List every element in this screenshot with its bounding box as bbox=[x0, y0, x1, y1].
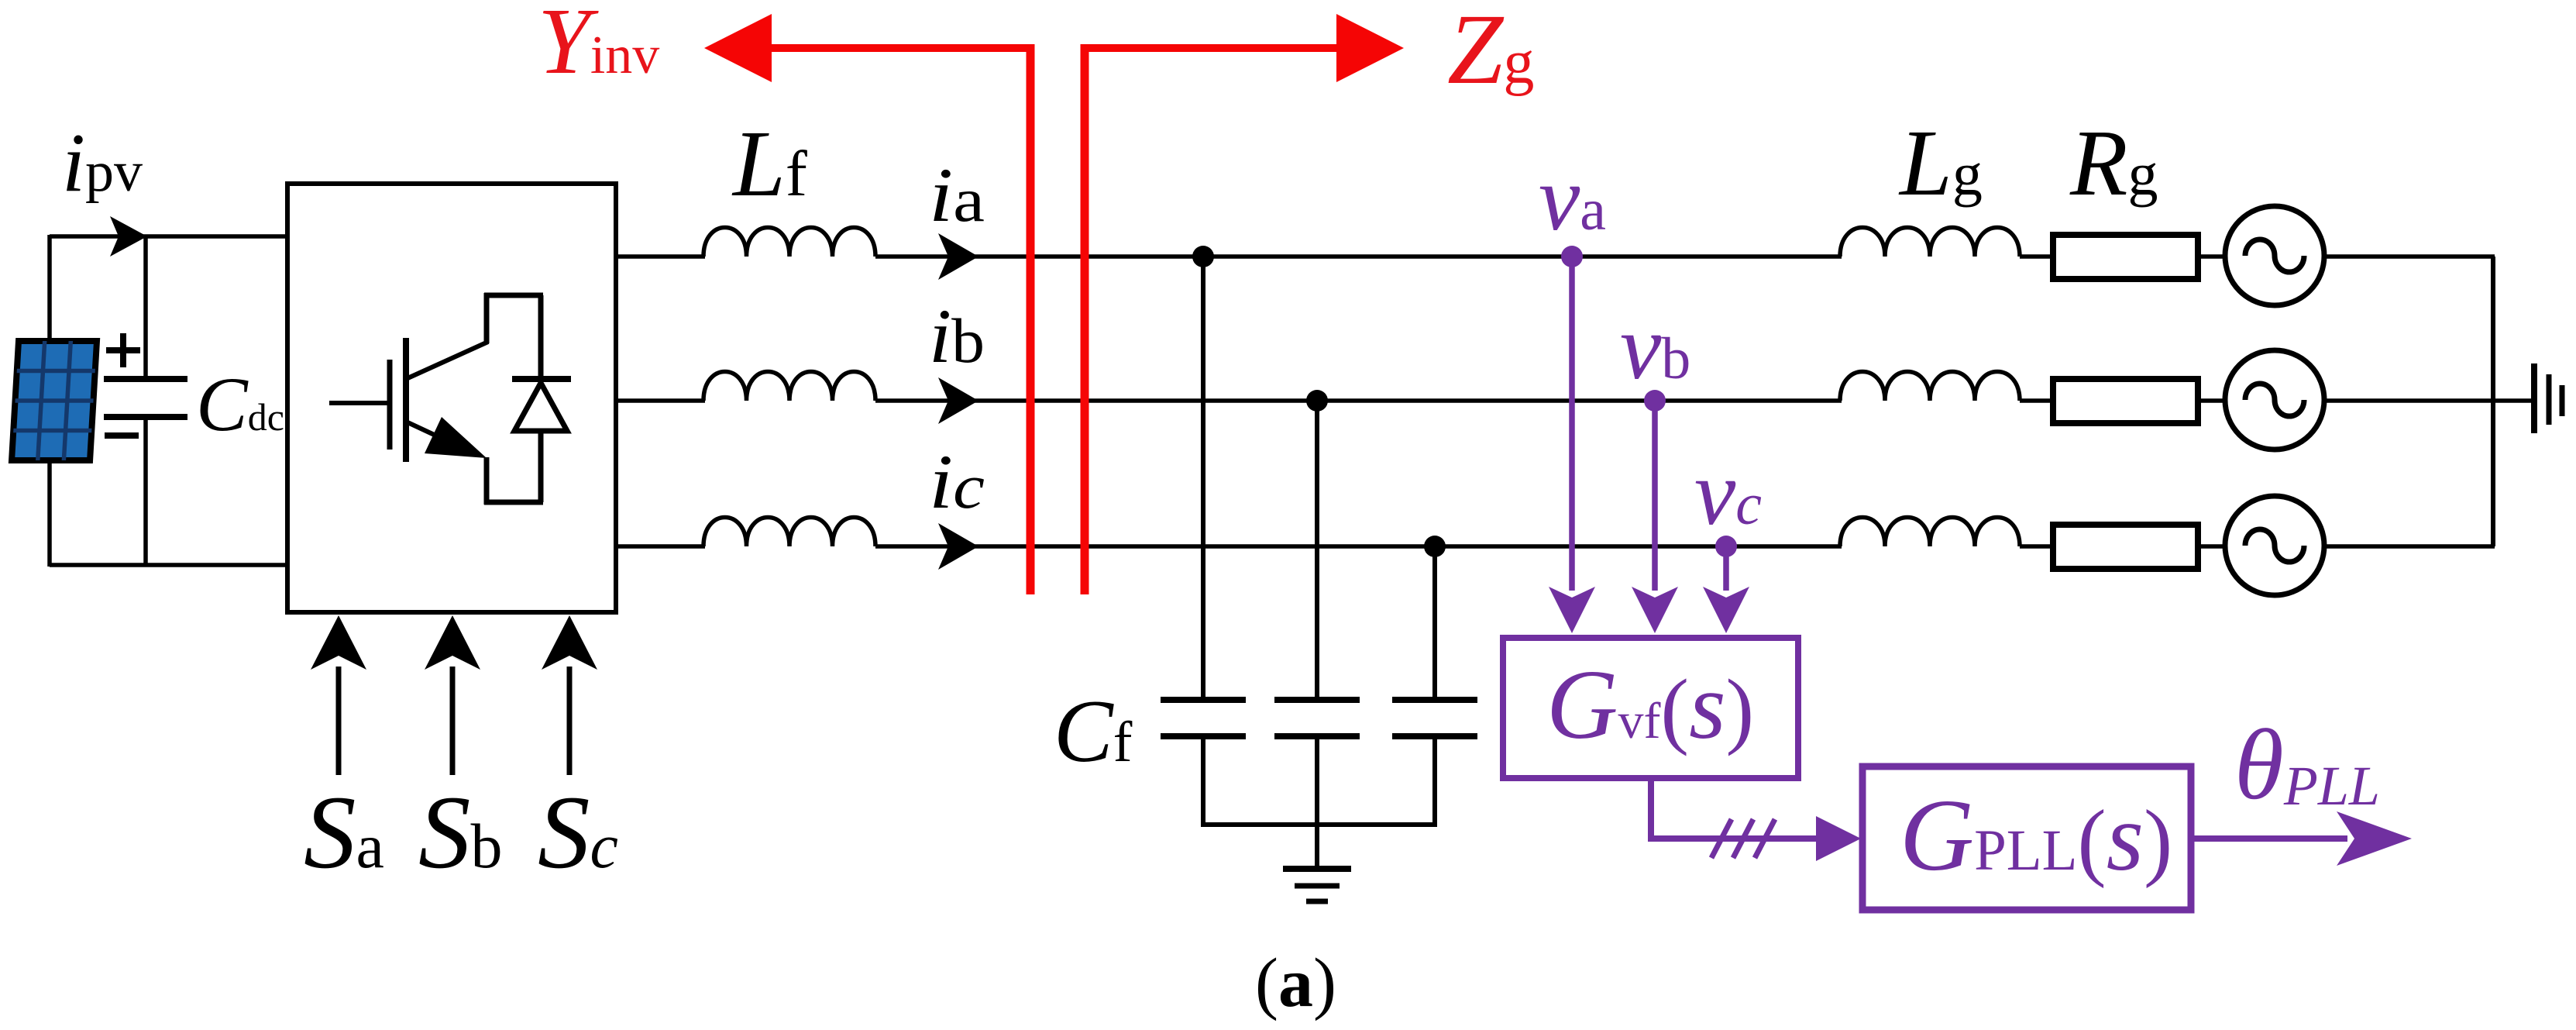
current arrow i_c bbox=[938, 523, 978, 570]
label Sa bbox=[304, 775, 384, 890]
label Gpll(s) bbox=[1900, 777, 2172, 892]
wire switch Sa bbox=[311, 615, 366, 775]
svg-text:(a): (a) bbox=[1255, 945, 1336, 1021]
ac source Vb bbox=[2225, 350, 2324, 450]
wire cap bus bbox=[1201, 822, 1437, 827]
transistor Q1 IGBT bbox=[329, 338, 488, 462]
label va bbox=[1539, 146, 1606, 250]
wire phase C source to bus bbox=[2324, 544, 2495, 549]
wire phase B source to bus bbox=[2324, 398, 2534, 403]
node vc bbox=[1715, 536, 1737, 557]
ac source Va bbox=[2225, 206, 2324, 305]
inductor Lg phase A bbox=[1840, 228, 2020, 257]
label Lf bbox=[731, 112, 807, 216]
wire vc sense bbox=[1703, 546, 1749, 633]
wire phase B coil to resistor bbox=[2020, 398, 2055, 403]
wire phase A to grid bbox=[875, 254, 1842, 259]
label Yinv bbox=[538, 0, 659, 94]
wire phase C coil to resistor bbox=[2020, 544, 2055, 549]
label Gvf(s) bbox=[1546, 649, 1754, 760]
arrow Yinv bbox=[704, 14, 1034, 82]
wire grid bus vertical bbox=[2491, 257, 2495, 546]
wire dc top bbox=[50, 234, 289, 239]
wire dc bottom bbox=[50, 563, 289, 567]
wire cap c lower bbox=[1432, 736, 1437, 827]
ground grid bbox=[2534, 363, 2562, 433]
capacitor Cf phase a bbox=[1161, 700, 1246, 736]
caption (a) bbox=[1255, 945, 1336, 1021]
wire phase B resistor to source bbox=[2198, 398, 2227, 403]
inductor Lf phase A bbox=[703, 228, 875, 257]
arrow Zg bbox=[1085, 14, 1404, 82]
wire cap b lower bbox=[1315, 736, 1319, 827]
wire dc left vertical bbox=[47, 235, 52, 567]
capacitor Cdc plate top bbox=[104, 376, 187, 382]
wire phase C to grid bbox=[875, 544, 1842, 549]
wire cap branch a bbox=[1201, 257, 1205, 700]
node phase C junction bbox=[1424, 536, 1446, 557]
resistor Rg phase B bbox=[2053, 379, 2198, 423]
svg-text:ia: ia bbox=[929, 152, 985, 238]
PV panel bbox=[12, 341, 97, 460]
wire Cdc top stem bbox=[143, 236, 148, 380]
label Sc bbox=[538, 775, 618, 890]
wire phase C from inverter bbox=[616, 544, 705, 549]
wire phase A resistor to source bbox=[2198, 254, 2227, 259]
wire va sense bbox=[1549, 257, 1595, 633]
label Cdc bbox=[196, 361, 284, 447]
capacitor Cdc plate bottom bbox=[104, 414, 187, 420]
wire phase A source to bus bbox=[2324, 254, 2495, 259]
node vb bbox=[1644, 390, 1666, 412]
current arrow i_a bbox=[938, 233, 978, 280]
red boundary line right bbox=[1081, 44, 1089, 594]
inductor Lf phase C bbox=[703, 518, 875, 547]
minus sign bbox=[105, 432, 139, 439]
current arrow i_pv bbox=[110, 216, 147, 257]
capacitor Cf phase b bbox=[1274, 700, 1360, 736]
label vb bbox=[1620, 295, 1690, 398]
capacitor Cf phase c bbox=[1392, 700, 1477, 736]
wire Cdc bottom stem bbox=[143, 417, 148, 567]
wire igbt frame bbox=[484, 293, 543, 505]
node va bbox=[1561, 246, 1583, 267]
wire phase A coil to resistor bbox=[2020, 254, 2055, 259]
wire switch Sc bbox=[542, 615, 597, 775]
label i_a bbox=[929, 152, 985, 238]
block Gpll bbox=[1862, 766, 2191, 910]
label Zg bbox=[1447, 0, 1534, 105]
inductor Lg phase B bbox=[1840, 372, 2020, 401]
wire phase C resistor to source bbox=[2198, 544, 2227, 549]
label i_c bbox=[929, 439, 985, 525]
wire ground stem bbox=[1315, 825, 1319, 870]
inverter box bbox=[287, 184, 616, 612]
node phase A junction bbox=[1192, 246, 1214, 267]
wire Gvf to Gpll bbox=[1651, 778, 1819, 842]
resistor Rg phase C bbox=[2053, 525, 2198, 569]
label i_b bbox=[929, 293, 985, 379]
wire cap branch c bbox=[1432, 546, 1437, 700]
resistor Rg phase A bbox=[2053, 235, 2198, 279]
label i_pv bbox=[62, 117, 143, 209]
node phase B junction bbox=[1306, 390, 1328, 412]
wire vb sense bbox=[1632, 401, 1678, 633]
label Sb bbox=[418, 775, 503, 890]
inductor Lf phase B bbox=[703, 372, 875, 401]
arrow theta out bbox=[2194, 811, 2412, 866]
wire cap branch b bbox=[1315, 401, 1319, 700]
diode D1 bbox=[512, 379, 571, 431]
wire phase A from inverter bbox=[616, 254, 705, 259]
red boundary line left bbox=[1027, 44, 1035, 594]
label theta_PLL bbox=[2234, 709, 2380, 821]
wire phase B from inverter bbox=[616, 398, 705, 403]
label Cf bbox=[1054, 682, 1133, 780]
svg-text:ib: ib bbox=[929, 293, 985, 379]
current arrow i_b bbox=[938, 377, 978, 424]
svg-text:ic: ic bbox=[929, 439, 985, 525]
inductor Lg phase C bbox=[1840, 518, 2020, 547]
arrow into Gpll bbox=[1816, 816, 1861, 861]
plus sign bbox=[106, 333, 140, 367]
bus slashes bbox=[1711, 819, 1775, 858]
ac source Vc bbox=[2225, 496, 2324, 595]
ground filter bbox=[1283, 869, 1351, 901]
label Rg bbox=[2069, 111, 2158, 215]
wire phase B to grid bbox=[875, 398, 1842, 403]
block Gvf bbox=[1503, 638, 1798, 778]
wire cap a lower bbox=[1201, 736, 1205, 827]
label Lg bbox=[1898, 111, 1983, 215]
wire switch Sb bbox=[425, 615, 480, 775]
label vc bbox=[1694, 441, 1762, 544]
